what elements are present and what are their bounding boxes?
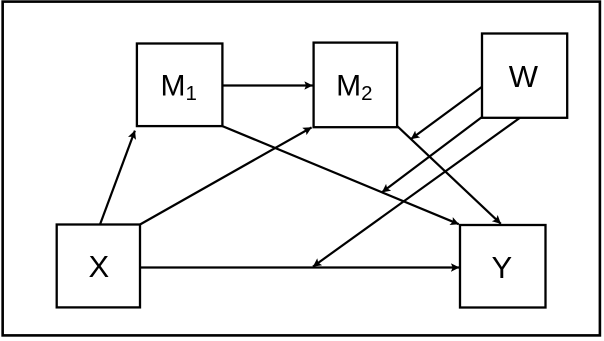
moderation arrow W to M1-Y path <box>382 117 482 192</box>
arrow X to Y <box>140 266 459 268</box>
arrow M1 to M2 <box>222 84 312 86</box>
box Y <box>460 225 546 308</box>
box M2 <box>314 43 398 128</box>
moderation arrow W to X-Y path <box>313 117 521 267</box>
svg-text:Y: Y <box>491 250 512 285</box>
arrow X to M1 <box>100 131 135 225</box>
arrow X to M2 <box>140 127 312 224</box>
box X <box>57 225 140 308</box>
arrow M2 to Y <box>397 126 501 224</box>
svg-text:W: W <box>509 59 539 94</box>
moderation arrow W to M2-Y path <box>411 87 482 139</box>
box W <box>482 34 567 118</box>
box M1 <box>137 44 223 127</box>
arrow M1 to Y <box>222 126 458 224</box>
svg-text:X: X <box>88 249 109 284</box>
